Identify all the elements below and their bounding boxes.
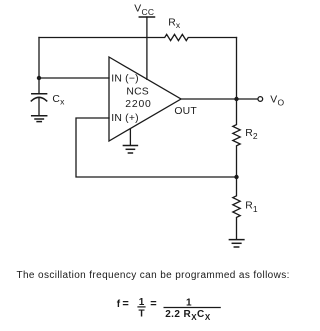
svg-text:Rx: Rx	[168, 18, 181, 30]
svg-text:T: T	[138, 309, 144, 320]
svg-text:OUT: OUT	[174, 106, 197, 117]
svg-text:=: =	[122, 298, 128, 310]
svg-text:IN (−): IN (−)	[111, 74, 138, 85]
svg-text:=: =	[150, 298, 156, 310]
svg-text:2200: 2200	[125, 99, 151, 110]
svg-text:IN (+): IN (+)	[111, 113, 138, 124]
svg-text:NCS: NCS	[126, 86, 149, 97]
svg-text:1: 1	[186, 297, 192, 308]
svg-text:Cx: Cx	[52, 94, 65, 107]
svg-text:R2: R2	[245, 128, 258, 141]
svg-text:The oscillation frequency can: The oscillation frequency can be program…	[17, 270, 290, 281]
